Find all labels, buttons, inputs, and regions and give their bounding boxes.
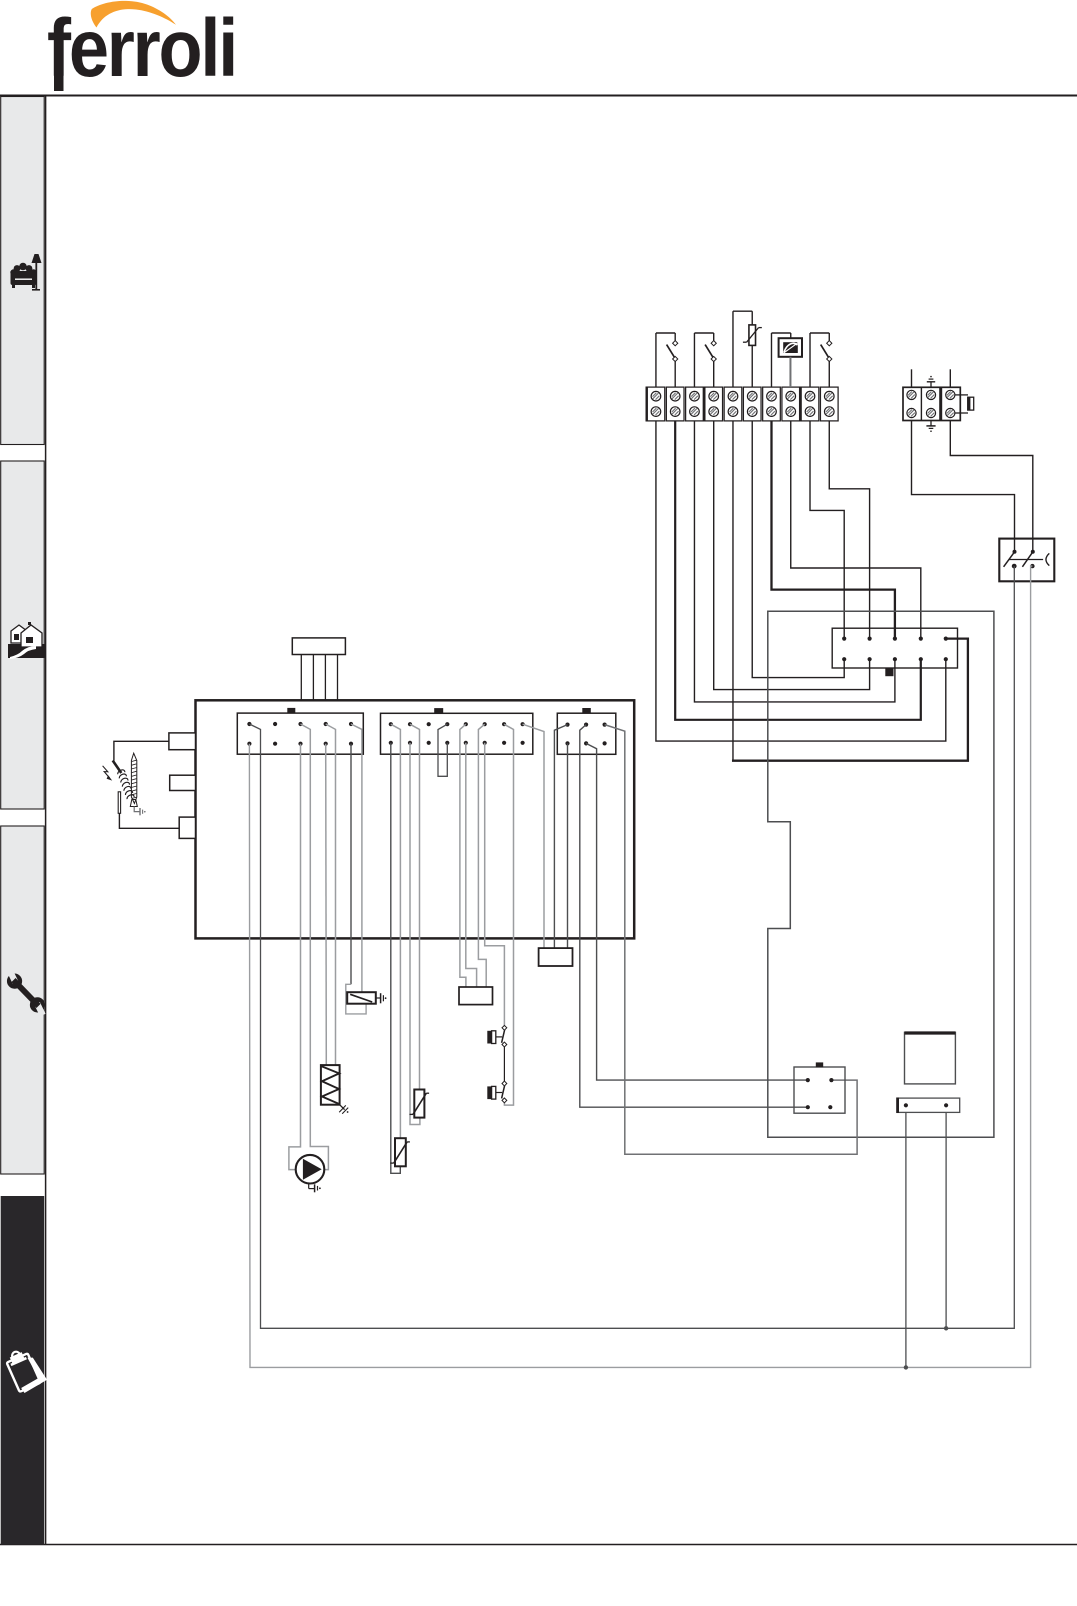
wire b3p1a to aux box (554, 725, 567, 949)
earth symbol top (930, 382, 932, 388)
external switch S3 (t9-t10) (809, 333, 811, 387)
CH thermistor (414, 1090, 424, 1118)
ignition unit square (905, 1032, 956, 1084)
wire b1p1a long return (dark) (249, 566, 1014, 1328)
wire b3p3 to X7 pin2 (gray) (605, 725, 858, 1155)
pump wire left (289, 744, 301, 1170)
PCB connector block 2 (381, 713, 533, 754)
wire below flue sensor (789, 357, 791, 387)
mains wire L (912, 421, 1015, 552)
sofa icon (10, 254, 41, 291)
igniter supply wire top (114, 741, 169, 761)
gas valve wire a (dark) (350, 744, 352, 985)
DHW thermistor (395, 1138, 406, 1166)
sidebar vertical rule (45, 96, 47, 1546)
svg-text:ferroli: ferroli (47, 3, 236, 94)
houses icon (8, 622, 45, 659)
wire t8 to X6r1p4 (791, 421, 921, 639)
wire t6 to X6r2p1 (752, 421, 844, 678)
PCB connector block 3 (557, 713, 616, 754)
Ferroli logo swoosh (91, 1, 176, 28)
ignition coil spring (118, 770, 134, 799)
wire b2p5b to connector box (466, 743, 477, 987)
switch blade (667, 345, 675, 359)
switch blade (705, 345, 713, 359)
sensor wire b2p2a to CH thermistor bottom (410, 743, 420, 1125)
top rule (0, 95, 1077, 97)
pump P1 (296, 1155, 325, 1184)
room thermostat box (999, 539, 1054, 582)
wire t9 to X6r1p1 (810, 421, 844, 639)
mains terminal block (903, 387, 960, 420)
igniter wire right (326, 724, 336, 1065)
pump plug glyph (308, 1184, 310, 1189)
wire b3p2a to X7 pin3 (580, 725, 808, 1108)
flue fan pressure sensor icon (779, 338, 802, 357)
sidebar panel 3 (1, 826, 45, 1174)
sensor wire b2p2b to CH thermistor top (410, 724, 420, 1089)
pressure switch 1 (487, 1031, 491, 1044)
earth symbol bottom (930, 421, 932, 426)
junction dots bottom returns (944, 1326, 948, 1330)
wire t4 to X6r2p2 (714, 421, 870, 690)
wire t1 to X6r2p5 (656, 421, 946, 741)
outside sensor bridge (t5-t6) (732, 311, 734, 387)
X8 wires down (905, 1112, 907, 1367)
aux connector box (539, 948, 573, 966)
wire b2p6a to connector box (478, 724, 486, 987)
wire b2p6b to pressure switch chain (485, 743, 505, 1026)
sensor wire b2p1b to DHW thermistor top (391, 724, 401, 1138)
wire b3p1b to aux box (567, 743, 569, 948)
pump wire right (301, 724, 329, 1170)
connector X8 (2 pin) (897, 1098, 960, 1112)
sidebar panel 2 (1, 461, 45, 809)
mains stubs (911, 369, 913, 387)
display connector (292, 638, 345, 655)
gas valve plug glyph (376, 997, 381, 999)
wire t7 to X6r1p3 (heavy) (771, 421, 894, 639)
outside sensor thermistor (749, 325, 756, 346)
X1 screws (651, 391, 661, 401)
wire t5 to X6r1p5 (heavy loop) (732, 421, 734, 761)
igniter wire left (325, 744, 328, 1065)
switch blade (821, 345, 829, 359)
pressure switch 2 (487, 1086, 491, 1099)
jumper loop b2p4 (438, 724, 447, 776)
wire t2 to X6r2p4 (heavy) (675, 421, 921, 720)
connector X6 (832, 628, 957, 668)
mains wire N (950, 421, 1033, 552)
Ferroli logo text (47, 3, 236, 94)
sidebar panel 4 (black) (1, 1196, 45, 1545)
control unit boundary (768, 611, 994, 1137)
PCB outline (196, 700, 635, 938)
X1 heavy dividers (646, 387, 648, 422)
gas valve operator (347, 992, 376, 1004)
igniter return wire (119, 813, 179, 828)
flue sensor bridge (t7-t8) (770, 333, 772, 387)
wire t10 to X6r1p2 (829, 421, 869, 639)
external switch S2 (t3-t4) (693, 333, 695, 387)
wire b1p1b long return (gray) (249, 566, 1032, 1367)
transformer earth tail (340, 1105, 345, 1110)
terminal block X1 outline (647, 387, 665, 421)
PCB left tab 3 (179, 817, 195, 838)
PCB left tab 2 (170, 775, 196, 790)
ignition transformer (321, 1065, 340, 1105)
external switch S1 (t1-t2) (655, 333, 657, 387)
wire b2p8 to aux box (523, 724, 544, 948)
clipboard icon (4, 1345, 48, 1395)
sensor wire b2p1a to DHW thermistor bottom (dark) (391, 743, 401, 1174)
flame rod bar (118, 792, 120, 814)
wire t3 to X6r2p3 (694, 421, 894, 702)
logo f-stem descender (54, 74, 64, 91)
gas valve bracket (gray) (346, 984, 366, 1014)
gas valve wire b (351, 724, 362, 994)
bottom rule (0, 1544, 1077, 1546)
fuse F1 (955, 394, 968, 396)
wire b3p2b to X7 pin1 (586, 743, 808, 1080)
detection electrode probe (131, 753, 136, 803)
room stat contacts (1013, 550, 1017, 554)
connector box small (459, 987, 493, 1005)
wire b2p5a to connector box (460, 724, 466, 987)
spark electrode (113, 761, 122, 774)
X6 polarizing tab (885, 668, 893, 676)
PCB connector block 1 (237, 713, 363, 754)
connector X7 (794, 1067, 845, 1113)
wire b2p7 from pressure switch chain (504, 724, 513, 1105)
spark arrow (103, 766, 110, 778)
probe earth (gray) (134, 807, 140, 812)
sidebar panel 1 (1, 97, 45, 445)
wrench icon (1, 967, 51, 1018)
PCB left tab 1 (169, 733, 196, 750)
